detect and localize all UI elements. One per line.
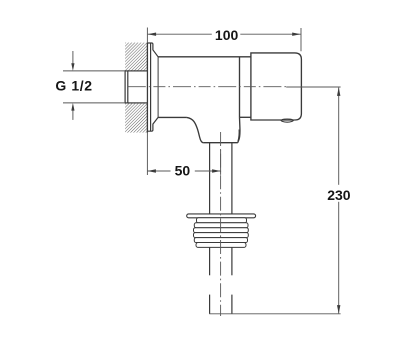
svg-text:G 1/2: G 1/2 xyxy=(55,78,92,94)
outlet pipe middle xyxy=(210,247,232,275)
pot / lower chamber xyxy=(187,117,240,142)
wall face line xyxy=(146,43,148,133)
push button xyxy=(251,53,302,120)
dimension 100 xyxy=(147,28,301,52)
dimension 50 xyxy=(147,133,220,175)
outlet pipe lower xyxy=(210,295,232,314)
button bottom oval detail xyxy=(281,120,294,122)
wall hatching lower xyxy=(125,103,147,133)
svg-text:50: 50 xyxy=(175,163,191,179)
dimension G 1/2 xyxy=(63,51,125,120)
thread G1/2 nipple xyxy=(125,71,147,103)
outlet pipe upper xyxy=(210,143,232,214)
dimension 230 xyxy=(209,87,340,314)
centerline horizontal xyxy=(128,86,286,88)
svg-text:100: 100 xyxy=(215,27,239,43)
flange escutcheon xyxy=(147,43,158,131)
seal washer xyxy=(187,214,256,218)
seal ribs xyxy=(194,218,249,248)
valve body xyxy=(158,57,251,118)
svg-text:230: 230 xyxy=(327,187,351,203)
centerline vertical (pipe axis) xyxy=(220,132,222,316)
wall hatching upper xyxy=(125,43,147,71)
